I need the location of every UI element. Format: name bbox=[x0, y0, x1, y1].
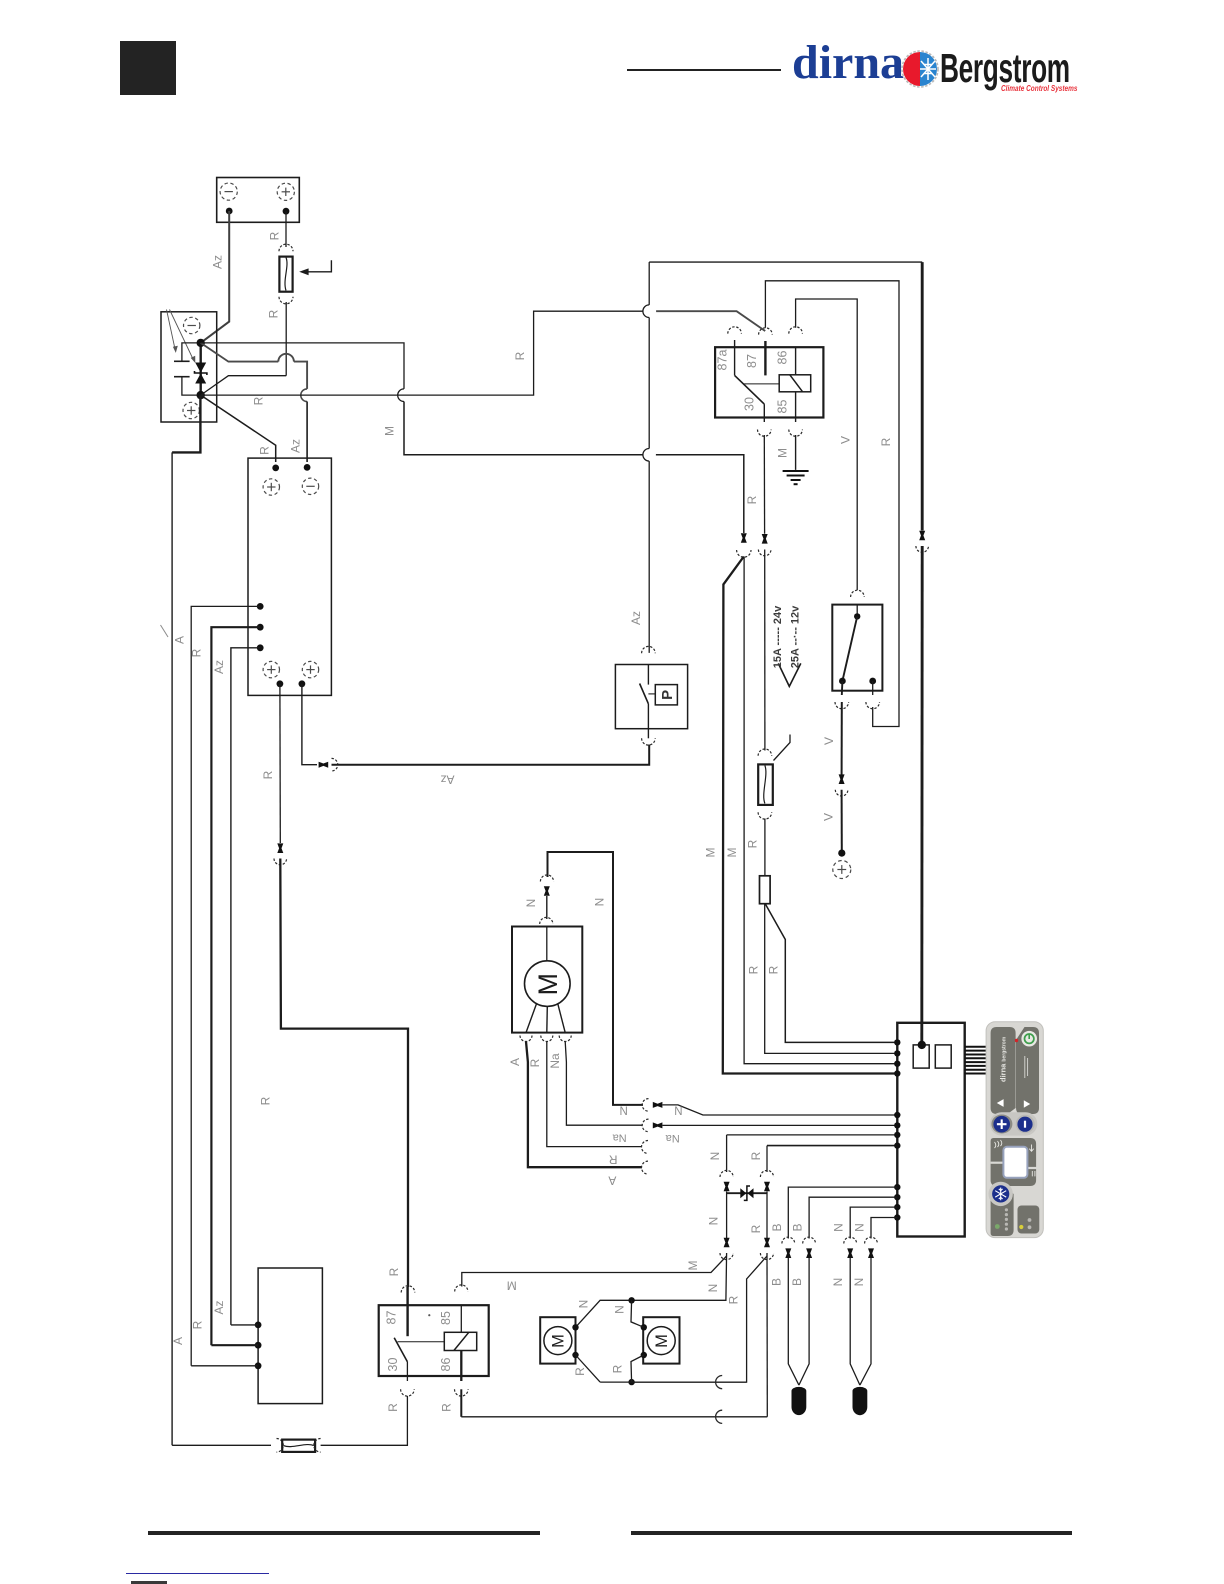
svg-text:M: M bbox=[653, 1334, 671, 1348]
wire R battery positive lower bbox=[285, 302, 287, 376]
auxiliary unit B9 bbox=[258, 1268, 322, 1404]
svg-text:R: R bbox=[440, 1403, 454, 1412]
connector pin blower feed pin bbox=[544, 886, 550, 896]
wire Az riser segment 2 bbox=[648, 318, 650, 449]
wire Az gray feed 2 bbox=[294, 362, 307, 389]
node selector common bbox=[854, 613, 860, 619]
wire M branch to relay2 85 bbox=[462, 1256, 727, 1287]
svg-text:B: B bbox=[790, 1278, 804, 1286]
fuse F2 bbox=[758, 764, 773, 805]
wire battery feed heavy lower bbox=[920, 546, 923, 1045]
svg-text:M: M bbox=[383, 426, 397, 436]
svg-text:86: 86 bbox=[439, 1358, 453, 1372]
wire M thin branch bbox=[744, 557, 897, 1064]
wire 86 R horizontal left bbox=[461, 1416, 767, 1418]
controller connector block 2 bbox=[935, 1045, 951, 1068]
svg-text:N: N bbox=[832, 1223, 846, 1232]
wire M2 R jog bbox=[631, 1355, 644, 1382]
svg-text:R: R bbox=[727, 1295, 741, 1304]
relay2 coil bbox=[444, 1332, 476, 1350]
wire flasher capacitor bottom lead bbox=[182, 377, 201, 395]
svg-text:R: R bbox=[191, 1320, 205, 1329]
wire h2 R loop bbox=[765, 281, 899, 727]
connector pin V pin bbox=[839, 774, 845, 784]
ballast resistor bbox=[760, 876, 771, 904]
battery B1 bbox=[217, 178, 300, 223]
connector arc relay1 87a socket bbox=[728, 327, 742, 334]
wire R output lower bbox=[280, 859, 408, 1288]
node controller pin5 N bbox=[894, 1112, 900, 1118]
wire probe B1 lower bbox=[788, 1258, 799, 1385]
wire flasher internal bus bbox=[199, 343, 201, 395]
fan speed capsule bbox=[990, 1112, 1038, 1135]
controller unit B8 bbox=[897, 1023, 964, 1237]
wire h1 feed line bbox=[649, 261, 922, 263]
svg-text:85: 85 bbox=[439, 1311, 453, 1325]
connector arc probe N1 socket bbox=[844, 1237, 857, 1243]
connector arc N chain socket 2 bbox=[720, 1253, 733, 1260]
fan minus button bbox=[1017, 1117, 1032, 1132]
wire A rail header bbox=[172, 395, 200, 452]
hop arc gray over R bbox=[278, 354, 294, 362]
node controller pin7 N bbox=[894, 1132, 900, 1138]
node controller pin4 M bbox=[894, 1070, 900, 1076]
connector arc M rail socket bbox=[737, 550, 751, 557]
wire N chain upper bbox=[726, 1135, 728, 1172]
svg-text:R: R bbox=[745, 495, 759, 504]
node M2 N terminal bbox=[641, 1324, 647, 1330]
wire A tap wire bbox=[191, 606, 260, 1365]
relay1 coil bbox=[779, 375, 811, 392]
node N net node bbox=[628, 1297, 634, 1303]
svg-text:Na: Na bbox=[665, 1132, 680, 1144]
connector arc fuse F3 right clip bbox=[314, 1439, 321, 1453]
svg-text:87a: 87a bbox=[716, 350, 730, 371]
connector arc fuse F1 bottom clip bbox=[279, 297, 293, 304]
node battery pos terminal bbox=[283, 208, 290, 215]
connector arc fuse F2 bottom clip bbox=[758, 812, 772, 819]
svg-text:N: N bbox=[831, 1278, 845, 1287]
panel small white legend lines bbox=[1025, 1056, 1028, 1078]
control panel bezel bbox=[986, 1022, 1043, 1238]
connector arc 86 R splice bbox=[716, 1410, 723, 1423]
footer bar left bbox=[148, 1531, 540, 1535]
wire battery feed heavy upper bbox=[921, 262, 924, 530]
mid dark block bbox=[991, 1138, 1037, 1186]
node converter tapA bbox=[257, 603, 264, 610]
wire probe B2 lower bbox=[799, 1258, 809, 1385]
plus probe symbol bbox=[833, 861, 851, 879]
yellow LED bbox=[1019, 1225, 1023, 1229]
wire R tap wire bbox=[211, 627, 260, 1345]
wire fuse to relay2 30 bbox=[321, 1396, 408, 1445]
wire Az battery negative bbox=[201, 211, 229, 343]
connector arc fuse F1 top clip bbox=[279, 244, 293, 251]
connector arc blower A socket bbox=[520, 1036, 532, 1042]
terminal symbol converter plus top bbox=[263, 479, 279, 495]
motor M2 box bbox=[643, 1317, 679, 1363]
wire Az output bbox=[302, 684, 317, 765]
selector blade bbox=[842, 616, 857, 681]
connector arc R chain socket 2 bbox=[760, 1253, 773, 1260]
node converter tapR bbox=[257, 624, 264, 631]
node controller pin10 B bbox=[894, 1194, 900, 1200]
ground symbol bbox=[783, 471, 809, 484]
svg-text:85: 85 bbox=[776, 400, 790, 414]
connector arc relay1 85 socket bbox=[789, 430, 803, 437]
node battery neg terminal bbox=[226, 208, 233, 215]
wire blower supply bridge bbox=[548, 852, 644, 1105]
relay2 blade bbox=[394, 1338, 407, 1362]
hop arc M rail vertical bbox=[398, 389, 404, 402]
svg-text:Na: Na bbox=[612, 1132, 627, 1144]
svg-text:Az: Az bbox=[440, 773, 454, 787]
svg-text:M: M bbox=[533, 973, 563, 996]
svg-text:A: A bbox=[171, 1337, 185, 1345]
svg-text:R: R bbox=[252, 396, 266, 405]
wire R to controller 2 bbox=[766, 904, 898, 1042]
connector arc R 30 socket bbox=[758, 550, 771, 556]
connector arc relay2 86 socket bbox=[455, 1389, 469, 1396]
connector arc Az line socket bbox=[332, 758, 338, 771]
svg-text:M: M bbox=[725, 848, 739, 858]
relay K2 bbox=[379, 1305, 489, 1376]
terminal symbol battery plus bbox=[277, 183, 294, 200]
wire probe N2 lower bbox=[860, 1258, 871, 1385]
fuse F3 bbox=[282, 1440, 315, 1452]
wire Az into converter bbox=[306, 402, 308, 463]
connector pin probe B2 pin bbox=[806, 1248, 812, 1258]
wire P blade link bbox=[648, 693, 655, 695]
node controller pin6 Na bbox=[894, 1122, 900, 1128]
pressure switch B4 bbox=[615, 665, 687, 729]
terminal symbol converter minus top bbox=[302, 478, 318, 494]
cut-off footer text stub bbox=[131, 1581, 167, 1584]
wire R chain to 86 line bbox=[766, 1253, 768, 1417]
connector arc relay1 86 socket bbox=[789, 327, 803, 334]
wire 85 ground lead bbox=[795, 435, 797, 470]
svg-text:15A ----- 24v: 15A ----- 24v bbox=[772, 605, 784, 668]
svg-text:R: R bbox=[879, 437, 893, 446]
hop arc Az over node line bbox=[301, 389, 307, 402]
svg-text:P: P bbox=[659, 690, 676, 700]
terminal symbol converter plus br bbox=[302, 661, 318, 677]
svg-text:N: N bbox=[853, 1223, 867, 1232]
wire V wire lower bbox=[841, 790, 843, 853]
blower motor box B7 bbox=[512, 927, 582, 1033]
node controller feed node bbox=[918, 1041, 926, 1049]
svg-text:V: V bbox=[822, 813, 836, 821]
svg-text:N: N bbox=[524, 899, 538, 908]
wire R battery positive upper bbox=[285, 211, 287, 247]
svg-text:M: M bbox=[686, 1261, 700, 1271]
connector arc blower R socket bbox=[541, 1036, 553, 1042]
connector pin N chain pin 2 bbox=[724, 1238, 730, 1248]
connector arc motor R splice bbox=[716, 1376, 723, 1389]
wire relay2 blade-coil link bbox=[398, 1341, 445, 1343]
wire M rail from neg node bbox=[201, 343, 404, 389]
wire Na line to controller bbox=[663, 1124, 898, 1126]
converter B3 bbox=[248, 458, 331, 695]
node M2 R terminal bbox=[641, 1352, 647, 1358]
svg-text:R: R bbox=[387, 1267, 401, 1276]
wire M1 R diag bbox=[576, 1355, 601, 1382]
wire M thick branch bbox=[723, 557, 898, 1074]
svg-text:25A --·-- 12v: 25A --·-- 12v bbox=[790, 605, 802, 668]
connector arc R dead-end socket bbox=[642, 1141, 648, 1154]
connector arc fuse F2 top clip bbox=[758, 749, 772, 756]
connector pin probe N1 pin bbox=[847, 1248, 853, 1258]
wire h3 V loop bbox=[796, 299, 858, 590]
connector pin R output pin bbox=[277, 843, 283, 853]
wire R to converter diag bbox=[201, 395, 276, 462]
wire R fuse return bbox=[201, 376, 287, 395]
node plus probe terminal bbox=[838, 850, 845, 857]
motor M1 box bbox=[540, 1317, 575, 1363]
svg-text:R: R bbox=[749, 1224, 763, 1233]
header rule line bbox=[627, 69, 781, 71]
connector arc V socket bbox=[835, 790, 848, 796]
svg-text:A: A bbox=[508, 1058, 522, 1066]
connector pin Az line pin bbox=[319, 762, 329, 768]
panel dark strip right bbox=[1016, 1027, 1039, 1114]
terminal symbol converter plus bl bbox=[263, 661, 279, 677]
relay2 dust speck bbox=[428, 1314, 430, 1316]
wire relay1 87a stub bbox=[734, 340, 736, 375]
wire probe N1 lower bbox=[850, 1258, 860, 1385]
leader arrow 2 bbox=[170, 310, 194, 360]
P inner box bbox=[655, 685, 677, 705]
svg-text:M: M bbox=[507, 1279, 517, 1293]
svg-text:R: R bbox=[258, 446, 272, 455]
Bergstrom logo text bbox=[940, 45, 1081, 87]
wire relay2 85 lead bbox=[460, 1305, 462, 1332]
hop arc Az riser over R feed bbox=[643, 305, 649, 318]
wire Az riser segment 1 bbox=[648, 461, 650, 653]
svg-text:B: B bbox=[770, 1223, 784, 1231]
wire R to controller 1 bbox=[765, 904, 898, 1054]
svg-text:R: R bbox=[190, 648, 204, 657]
wire Az riser segment 3 bbox=[648, 262, 650, 305]
wire capacitor plate upper bbox=[174, 360, 190, 362]
wire blower motor stem bbox=[546, 927, 548, 961]
svg-text:Az: Az bbox=[212, 660, 226, 674]
wire R 30 mid bbox=[764, 550, 766, 751]
wire relay1 30 lead bbox=[763, 404, 765, 422]
panel dark strip left with dirna text bbox=[991, 1027, 1016, 1114]
svg-text:86: 86 bbox=[776, 351, 790, 365]
wire P switch top lead bbox=[647, 665, 649, 685]
wire relay1 87 stub bbox=[764, 341, 766, 375]
wire relay1 85 lead bbox=[795, 392, 797, 422]
svg-text:V: V bbox=[839, 436, 853, 444]
wire N line to controller bbox=[663, 1105, 898, 1115]
dirna logo text bbox=[792, 35, 904, 85]
node converter out Az bbox=[299, 680, 306, 687]
wire probe wire B2 upper bbox=[809, 1197, 897, 1238]
wire M rail right portion bbox=[656, 455, 744, 533]
node controller pin2 R bbox=[894, 1050, 900, 1056]
node converter tapAz bbox=[257, 644, 264, 651]
wire R branch to motors bbox=[632, 1256, 767, 1382]
svg-text:N: N bbox=[852, 1278, 866, 1287]
LED column bbox=[1005, 1208, 1008, 1226]
svg-text:Na: Na bbox=[548, 1053, 562, 1069]
connector pin N line pin bbox=[653, 1102, 663, 1108]
svg-text:A: A bbox=[173, 636, 187, 644]
node controller pin9 B bbox=[894, 1184, 900, 1190]
connector pin probe N2 pin bbox=[868, 1248, 874, 1258]
dirna globe icon bbox=[901, 50, 939, 88]
svg-text:N: N bbox=[707, 1217, 721, 1226]
footer blue underline bbox=[126, 1573, 269, 1575]
node R net node bbox=[628, 1379, 634, 1385]
blower motor M circle bbox=[525, 961, 571, 1007]
TVS diode D1 bbox=[195, 363, 206, 373]
svg-text:N: N bbox=[708, 1152, 722, 1161]
relay K1 bbox=[715, 347, 823, 417]
connector arc probe N2 socket bbox=[865, 1237, 878, 1243]
connector arc selector top socket bbox=[851, 590, 865, 597]
svg-text:R: R bbox=[528, 1058, 542, 1067]
node converter R in bbox=[272, 465, 279, 472]
controller connector block 1 bbox=[913, 1045, 929, 1068]
temperature probe 1 bbox=[792, 1387, 807, 1415]
node B9 tap R bbox=[255, 1342, 262, 1349]
node controller pin1 R bbox=[894, 1039, 900, 1045]
svg-text:M: M bbox=[704, 848, 718, 858]
wire R lead bbox=[547, 1042, 642, 1147]
node B9 tap A bbox=[255, 1362, 262, 1369]
connector arc N line socket bbox=[642, 1099, 648, 1112]
wire rail1 vertical bbox=[171, 452, 173, 1445]
svg-text:R: R bbox=[259, 1096, 273, 1105]
temp icons bbox=[995, 1140, 1002, 1148]
wire R chain horizontal bbox=[767, 1145, 897, 1147]
wire R chain mid bbox=[766, 1192, 768, 1239]
svg-text:R: R bbox=[608, 1152, 617, 1166]
wire 86 R drop bbox=[460, 1389, 462, 1417]
connector arc P switch top socket bbox=[642, 646, 656, 653]
wire A lead bbox=[526, 1042, 642, 1168]
dual diode D2 bbox=[740, 1188, 746, 1198]
wire relay1 86 lead bbox=[795, 347, 797, 375]
connector pin M rail pin bbox=[741, 533, 747, 543]
page corner black square bbox=[120, 41, 176, 95]
node controller pin12 N bbox=[894, 1214, 900, 1220]
svg-text:R: R bbox=[747, 965, 761, 974]
terminal symbol flasher minus bbox=[184, 317, 200, 333]
connector pin R chain pin 2 bbox=[764, 1238, 770, 1248]
bottom dark blocks bbox=[991, 1187, 1014, 1236]
svg-text:30: 30 bbox=[742, 397, 756, 411]
wire Az tap to B9 bbox=[231, 1324, 258, 1326]
display window bbox=[1003, 1147, 1027, 1178]
node selector right pole bbox=[869, 678, 876, 685]
svg-text:N: N bbox=[593, 898, 607, 907]
svg-text:R: R bbox=[767, 965, 781, 974]
svg-text:R: R bbox=[573, 1367, 587, 1376]
connector arc selector right socket bbox=[866, 702, 880, 709]
wire probe wire N2 upper bbox=[871, 1218, 897, 1239]
svg-text:N: N bbox=[706, 1284, 720, 1293]
fan arrow buttons bbox=[997, 1099, 1004, 1107]
terminal symbol battery minus bbox=[220, 183, 237, 200]
svg-text:30: 30 bbox=[386, 1358, 400, 1372]
rating chevron bbox=[778, 663, 801, 686]
wire R feed lower node bbox=[201, 311, 643, 395]
connector arc battery feed socket bbox=[916, 546, 929, 552]
node controller pin11 N bbox=[894, 1204, 900, 1210]
wire P switch lower stub bbox=[647, 704, 649, 729]
svg-text:Az: Az bbox=[289, 439, 303, 453]
relay1 blade bbox=[735, 375, 765, 404]
connector arc relay2 87 socket bbox=[401, 1286, 415, 1293]
defrost icon bbox=[1032, 1171, 1035, 1176]
wire selector top lead bbox=[856, 605, 858, 617]
svg-text:87: 87 bbox=[745, 354, 759, 368]
footer bar right bbox=[631, 1531, 1072, 1535]
wire flasher capacitor top lead bbox=[182, 343, 201, 361]
connector pin Na line pin bbox=[653, 1122, 663, 1128]
svg-text:R: R bbox=[611, 1364, 625, 1373]
connector arc probe B2 socket bbox=[803, 1237, 816, 1243]
wire R feed to relay1 bbox=[656, 311, 765, 331]
connector arc relay2 30 socket bbox=[401, 1389, 415, 1396]
connector arc R output socket bbox=[274, 859, 287, 865]
connector arc selector left socket bbox=[835, 702, 849, 709]
wire N to motors bbox=[576, 1253, 727, 1327]
wire relay1 blade-coil link bbox=[743, 383, 779, 385]
svg-text:N: N bbox=[613, 1305, 627, 1314]
snowflake button bbox=[992, 1185, 1009, 1202]
wire R 30 lower bbox=[764, 819, 766, 876]
wire Az horizontal line bbox=[332, 745, 650, 765]
connector pin battery feed pin bbox=[919, 531, 925, 541]
wire Az tap wire bbox=[231, 648, 260, 1325]
wire probe wire N1 upper bbox=[850, 1207, 897, 1238]
connector arc R chain socket bbox=[760, 1170, 773, 1177]
wire motor R net mid bbox=[632, 1381, 747, 1383]
svg-text:N: N bbox=[620, 1106, 628, 1118]
wire rail1 to fuse bbox=[172, 1444, 271, 1446]
wire Na lead bbox=[565, 1042, 642, 1126]
wire relay2 30 lead bbox=[406, 1362, 408, 1381]
hop arc Az riser over M rail bbox=[643, 449, 649, 462]
svg-text:M: M bbox=[550, 1334, 568, 1348]
node M1 R terminal bbox=[572, 1352, 578, 1358]
fan plus button bbox=[993, 1116, 1010, 1133]
wire V wire upper bbox=[841, 702, 843, 775]
svg-text:R: R bbox=[749, 1151, 763, 1160]
blower prong Na bbox=[558, 1004, 565, 1033]
connector arc relay1 87 socket bbox=[759, 328, 773, 335]
fuse pointer arrow bbox=[308, 260, 332, 272]
wire capacitor plate lower bbox=[174, 376, 190, 378]
connector arc blower feed socket bbox=[540, 875, 553, 882]
wire N chain horizontal bbox=[727, 1134, 898, 1136]
connector arc Na line socket bbox=[642, 1119, 648, 1132]
wire motor R net left bbox=[600, 1381, 632, 1383]
node flasher pos node bbox=[197, 391, 205, 399]
node B9 tap Az bbox=[255, 1322, 262, 1329]
wire blower feed lower bbox=[546, 896, 548, 919]
P switch blade bbox=[640, 684, 649, 704]
green LED bbox=[995, 1224, 1000, 1229]
connector arc blower input socket bbox=[540, 917, 553, 924]
connector arc blower Na socket bbox=[559, 1036, 571, 1042]
wire diode link bbox=[727, 1192, 767, 1194]
